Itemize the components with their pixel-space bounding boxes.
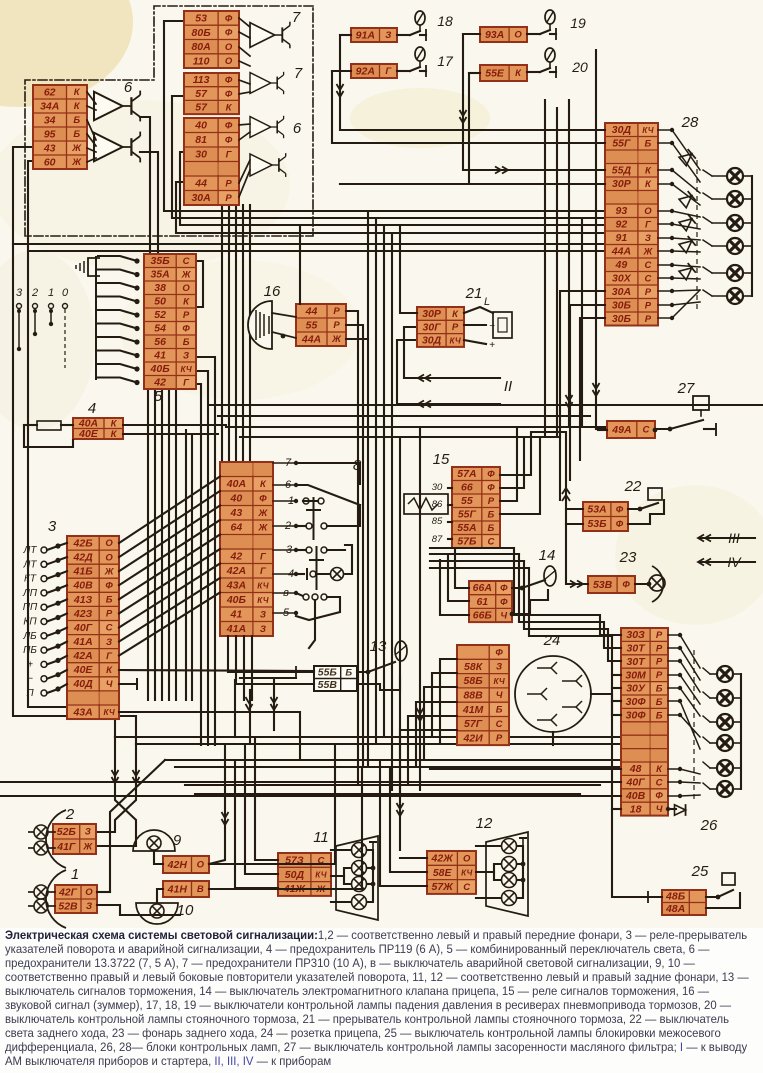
svg-text:Б: Б [656, 684, 663, 695]
svg-text:11: 11 [313, 829, 329, 846]
svg-text:О: О [105, 538, 113, 549]
svg-text:34А: 34А [40, 100, 59, 112]
svg-text:40Б: 40Б [226, 594, 247, 606]
svg-text:40Е: 40Е [78, 428, 99, 440]
svg-text:18: 18 [437, 13, 453, 29]
svg-text:О: О [105, 552, 113, 563]
svg-text:Ж: Ж [104, 566, 115, 577]
svg-text:38: 38 [154, 282, 166, 294]
svg-text:30: 30 [195, 149, 207, 161]
svg-text:Ф: Ф [495, 647, 503, 658]
svg-text:Р: Р [645, 314, 652, 325]
svg-text:53Б: 53Б [587, 518, 607, 530]
svg-text:41Б: 41Б [73, 566, 94, 578]
svg-text:Р: Р [488, 496, 495, 507]
svg-text:55В: 55В [318, 679, 338, 691]
svg-text:Ж: Ж [71, 143, 82, 154]
svg-text:58К: 58К [464, 661, 484, 673]
svg-text:42А: 42А [72, 650, 92, 662]
svg-text:87: 87 [432, 534, 443, 545]
svg-text:З: З [86, 901, 92, 912]
svg-text:КЧ: КЧ [461, 869, 472, 878]
svg-text:43А: 43А [72, 706, 92, 718]
svg-text:49А: 49А [611, 424, 631, 436]
svg-text:Р: Р [333, 320, 340, 331]
svg-text:Ф: Ф [487, 482, 495, 493]
svg-text:41Н: 41Н [167, 883, 188, 895]
svg-text:16: 16 [264, 283, 281, 300]
svg-text:60: 60 [44, 156, 56, 168]
svg-text:12: 12 [476, 815, 493, 832]
svg-text:КЧ: КЧ [103, 708, 114, 717]
svg-text:40В: 40В [72, 580, 93, 592]
svg-text:Ф: Ф [500, 583, 508, 594]
svg-text:Ф: Ф [225, 120, 233, 131]
svg-text:20: 20 [571, 59, 588, 75]
svg-text:Ф: Ф [225, 13, 233, 24]
svg-text:Ф: Ф [622, 580, 630, 591]
svg-text:41А: 41А [226, 623, 246, 635]
svg-text:О: О [225, 56, 233, 67]
svg-text:Ф: Ф [105, 581, 113, 592]
svg-text:Ф: Ф [225, 135, 233, 146]
svg-text:ЛТ: ЛТ [23, 559, 38, 570]
svg-text:З: З [85, 827, 91, 838]
svg-text:55А: 55А [457, 522, 476, 534]
svg-text:О: О [644, 206, 652, 217]
svg-text:IV: IV [727, 554, 742, 570]
svg-text:30Б: 30Б [612, 313, 632, 325]
svg-text:Р: Р [645, 300, 652, 311]
svg-text:З: З [260, 624, 266, 635]
svg-text:30А: 30А [612, 286, 631, 298]
svg-text:53А: 53А [587, 504, 606, 516]
svg-text:30Х: 30Х [612, 273, 632, 285]
svg-text:88В: 88В [463, 689, 483, 701]
svg-text:24: 24 [543, 632, 561, 649]
svg-text:Ж: Ж [82, 842, 93, 853]
svg-text:Р: Р [656, 643, 663, 654]
svg-text:Р: Р [645, 287, 652, 298]
svg-text:КТ: КТ [24, 574, 37, 585]
svg-text:Ф: Ф [225, 89, 233, 100]
svg-text:КЧ: КЧ [180, 365, 191, 374]
svg-text:30З: 30З [626, 629, 645, 641]
svg-text:КЧ: КЧ [449, 336, 460, 345]
svg-text:80А: 80А [191, 41, 210, 53]
svg-text:57Ж: 57Ж [431, 881, 454, 893]
svg-text:30У: 30У [626, 683, 646, 695]
svg-text:26: 26 [700, 817, 718, 834]
svg-text:10: 10 [177, 902, 194, 919]
svg-text:Б: Б [73, 129, 80, 140]
svg-text:44А: 44А [611, 246, 631, 258]
svg-text:30А: 30А [191, 192, 210, 204]
svg-text:55Б: 55Б [318, 667, 338, 679]
svg-text:30Д: 30Д [422, 335, 442, 347]
svg-text:З: З [183, 350, 189, 361]
svg-text:С: С [644, 273, 651, 284]
svg-text:58Е: 58Е [433, 867, 453, 879]
svg-text:5: 5 [154, 388, 163, 405]
svg-text:З: З [260, 610, 266, 621]
svg-text:110: 110 [193, 55, 210, 67]
svg-text:Ж: Ж [71, 157, 82, 168]
svg-text:Р: Р [183, 310, 190, 321]
svg-text:30Т: 30Т [627, 643, 647, 655]
svg-text:92А: 92А [356, 65, 375, 77]
svg-text:О: О [85, 887, 93, 898]
svg-text:Б: Б [645, 138, 652, 149]
svg-text:28: 28 [681, 114, 699, 131]
svg-text:Р: Р [225, 193, 232, 204]
svg-text:Б: Б [73, 115, 80, 126]
svg-text:43: 43 [230, 507, 243, 519]
svg-text:55Е: 55Е [485, 67, 505, 79]
svg-text:85: 85 [432, 516, 443, 527]
svg-text:Ж: Ж [257, 508, 268, 519]
svg-text:42: 42 [230, 551, 243, 563]
svg-text:Ч: Ч [656, 804, 663, 815]
svg-text:42Б: 42Б [73, 537, 94, 549]
svg-text:30М: 30М [625, 669, 646, 681]
svg-text:40А: 40А [226, 478, 246, 490]
svg-text:30Р: 30Р [612, 178, 632, 190]
svg-text:+: + [27, 659, 33, 670]
svg-text:Ф: Ф [259, 493, 267, 504]
svg-text:15: 15 [433, 451, 450, 468]
svg-text:4: 4 [88, 400, 96, 417]
svg-text:91: 91 [616, 232, 628, 244]
svg-text:30Т: 30Т [627, 656, 647, 668]
svg-text:35А: 35А [150, 269, 169, 281]
svg-text:34: 34 [44, 114, 56, 126]
svg-text:40Б: 40Б [150, 363, 171, 375]
svg-text:Б: Б [106, 595, 113, 606]
svg-text:Ч: Ч [496, 690, 503, 701]
svg-text:42Г: 42Г [58, 886, 78, 898]
svg-text:II: II [504, 378, 512, 395]
svg-text:25: 25 [691, 863, 709, 880]
svg-text:56: 56 [154, 336, 166, 348]
svg-text:З: З [385, 30, 391, 41]
svg-text:53В: 53В [593, 579, 613, 591]
svg-text:58Б: 58Б [464, 675, 484, 687]
svg-text:30Ф: 30Ф [626, 696, 647, 708]
svg-text:1: 1 [48, 287, 54, 299]
svg-text:40: 40 [230, 493, 243, 505]
svg-text:53: 53 [195, 13, 207, 25]
svg-text:40В: 40В [625, 790, 646, 802]
svg-text:30Д: 30Д [612, 124, 632, 136]
svg-text:З: З [645, 233, 651, 244]
svg-text:19: 19 [570, 15, 586, 31]
svg-text:40Е: 40Е [73, 664, 94, 676]
svg-text:ПП: ПП [23, 602, 38, 613]
svg-text:57Б: 57Б [457, 536, 477, 548]
svg-text:44: 44 [194, 178, 207, 190]
svg-text:113: 113 [193, 74, 210, 86]
svg-text:Р: Р [333, 306, 340, 317]
svg-text:С: С [183, 256, 190, 267]
svg-text:КЧ: КЧ [315, 871, 326, 880]
svg-text:40Г: 40Г [73, 622, 93, 634]
svg-text:−: − [489, 321, 495, 332]
svg-text:6: 6 [124, 79, 133, 96]
svg-text:50Д: 50Д [285, 869, 305, 881]
svg-text:П: П [26, 688, 34, 699]
svg-text:64: 64 [231, 522, 243, 534]
svg-text:44: 44 [305, 305, 318, 317]
svg-text:О: О [463, 853, 471, 864]
svg-text:КЧ: КЧ [493, 677, 504, 686]
svg-text:3: 3 [48, 518, 57, 535]
svg-text:57А: 57А [457, 468, 476, 480]
svg-text:2: 2 [65, 806, 75, 823]
svg-text:17: 17 [437, 53, 454, 69]
svg-text:30Р: 30Р [422, 308, 442, 320]
svg-text:52В: 52В [58, 900, 78, 912]
svg-text:57Г: 57Г [464, 718, 483, 730]
svg-text:Р: Р [656, 670, 663, 681]
svg-text:55: 55 [306, 319, 318, 331]
svg-text:55Г: 55Г [612, 138, 631, 150]
svg-text:55Д: 55Д [612, 165, 632, 177]
svg-text:Р: Р [656, 630, 663, 641]
svg-text:40Д: 40Д [72, 678, 93, 690]
svg-text:80Б: 80Б [192, 27, 212, 39]
svg-text:+: + [489, 340, 495, 351]
svg-text:41: 41 [153, 350, 166, 362]
svg-text:Р: Р [496, 733, 503, 744]
svg-text:Ф: Ф [616, 519, 624, 530]
svg-text:Ф: Ф [655, 791, 663, 802]
svg-text:Б: Б [496, 705, 503, 716]
svg-text:40Г: 40Г [626, 777, 646, 789]
svg-text:С: С [106, 623, 113, 634]
svg-text:Р: Р [656, 657, 663, 668]
svg-text:Ж: Ж [642, 246, 653, 257]
svg-text:18: 18 [630, 803, 642, 815]
svg-text:III: III [728, 530, 740, 546]
svg-text:55Г: 55Г [458, 509, 477, 521]
svg-text:Ч: Ч [500, 611, 507, 622]
svg-text:42Д: 42Д [72, 552, 93, 564]
svg-text:42Н: 42Н [167, 859, 188, 871]
svg-text:С: С [463, 882, 470, 893]
svg-text:41А: 41А [72, 636, 92, 648]
svg-text:41М: 41М [462, 704, 484, 716]
svg-text:30: 30 [432, 482, 443, 493]
svg-text:27: 27 [677, 380, 695, 397]
svg-text:КЧ: КЧ [642, 126, 653, 135]
svg-text:42И: 42И [462, 732, 483, 744]
svg-text:ПБ: ПБ [23, 645, 37, 656]
svg-text:С: С [487, 537, 494, 548]
svg-text:81: 81 [195, 134, 207, 146]
svg-text:93А: 93А [485, 29, 504, 41]
svg-text:Ч: Ч [106, 679, 113, 690]
svg-text:92: 92 [616, 219, 628, 231]
svg-text:54: 54 [154, 323, 166, 335]
svg-text:61: 61 [476, 596, 488, 608]
svg-text:93: 93 [616, 205, 628, 217]
svg-text:КП: КП [23, 617, 37, 628]
svg-text:З: З [496, 662, 502, 673]
svg-text:22: 22 [624, 478, 642, 495]
svg-text:42З: 42З [73, 608, 93, 620]
svg-text:48: 48 [629, 763, 642, 775]
svg-text:1: 1 [71, 866, 79, 883]
svg-text:Б: Б [488, 510, 495, 521]
svg-text:О: О [514, 30, 522, 41]
svg-text:62: 62 [44, 86, 56, 98]
svg-text:Б: Б [656, 697, 663, 708]
svg-text:С: С [642, 425, 649, 436]
svg-text:Ф: Ф [225, 28, 233, 39]
svg-text:52Б: 52Б [57, 826, 77, 838]
svg-text:66Б: 66Б [473, 610, 493, 622]
svg-text:7: 7 [294, 65, 303, 82]
svg-text:23: 23 [619, 549, 637, 566]
svg-text:Б: Б [345, 668, 352, 679]
svg-text:Ф: Ф [225, 75, 233, 86]
svg-text:48А: 48А [665, 903, 685, 915]
svg-text:С: С [656, 777, 663, 788]
svg-text:57: 57 [195, 88, 208, 100]
svg-text:42А: 42А [226, 565, 246, 577]
svg-text:66А: 66А [473, 582, 492, 594]
svg-text:ЛТ: ЛТ [23, 545, 38, 556]
svg-text:41З: 41З [73, 594, 93, 606]
svg-text:30Г: 30Г [423, 321, 442, 333]
svg-text:Р: Р [225, 178, 232, 189]
svg-text:З: З [106, 637, 112, 648]
svg-text:7: 7 [292, 9, 301, 26]
svg-text:Ж: Ж [257, 523, 268, 534]
svg-text:С: С [496, 719, 503, 730]
svg-text:Ф: Ф [500, 597, 508, 608]
svg-text:В: В [197, 884, 204, 895]
svg-text:3: 3 [16, 287, 23, 299]
svg-text:КЧ: КЧ [257, 596, 268, 605]
svg-text:Ф: Ф [616, 505, 624, 516]
svg-text:21: 21 [465, 285, 483, 302]
svg-text:О: О [225, 42, 233, 53]
svg-text:42: 42 [153, 377, 166, 389]
svg-text:ЛБ: ЛБ [22, 631, 37, 642]
svg-text:57: 57 [195, 102, 208, 114]
svg-text:Ф: Ф [487, 469, 495, 480]
svg-text:0: 0 [62, 287, 69, 299]
svg-text:49: 49 [615, 259, 628, 271]
svg-text:ЛП: ЛП [22, 588, 38, 599]
svg-text:41Г: 41Г [56, 841, 76, 853]
svg-text:35Б: 35Б [151, 255, 171, 267]
svg-text:Р: Р [452, 322, 459, 333]
svg-text:КЧ: КЧ [257, 582, 268, 591]
svg-text:−: − [27, 674, 33, 685]
svg-text:Б: Б [183, 337, 190, 348]
svg-text:Ж: Ж [181, 269, 192, 280]
svg-text:44А: 44А [301, 333, 321, 345]
svg-text:66: 66 [461, 482, 473, 494]
svg-text:30Б: 30Б [612, 300, 632, 312]
svg-text:О: О [182, 283, 190, 294]
svg-text:6: 6 [293, 120, 302, 137]
svg-text:О: О [197, 860, 205, 871]
svg-text:40: 40 [194, 120, 207, 132]
svg-text:50: 50 [154, 296, 166, 308]
svg-text:L: L [484, 296, 490, 308]
svg-text:43А: 43А [226, 580, 246, 592]
svg-text:С: С [644, 260, 651, 271]
svg-text:55: 55 [461, 495, 473, 507]
svg-text:48Б: 48Б [665, 891, 686, 903]
svg-text:Ф: Ф [182, 323, 190, 334]
svg-text:Ж: Ж [331, 334, 342, 345]
svg-text:91А: 91А [356, 29, 375, 41]
svg-text:Р: Р [106, 609, 113, 620]
svg-text:95: 95 [44, 128, 56, 140]
svg-text:Б: Б [488, 523, 495, 534]
svg-text:41: 41 [230, 609, 243, 621]
svg-text:14: 14 [539, 547, 556, 564]
svg-text:42Ж: 42Ж [430, 853, 454, 865]
svg-text:Б: Б [656, 710, 663, 721]
svg-text:43: 43 [43, 142, 56, 154]
svg-text:52: 52 [154, 309, 166, 321]
svg-text:30Ф: 30Ф [626, 710, 647, 722]
svg-text:2: 2 [31, 287, 38, 299]
